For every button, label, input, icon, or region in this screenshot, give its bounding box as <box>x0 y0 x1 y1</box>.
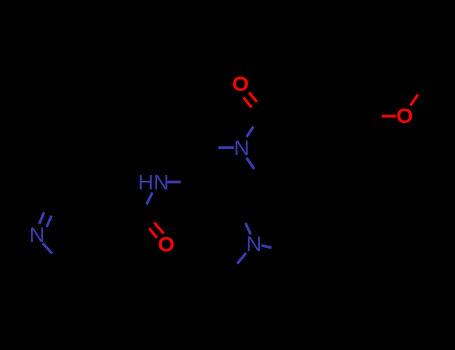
svg-text:N: N <box>246 232 262 256</box>
svg-text:O: O <box>396 104 413 128</box>
svg-text:HN: HN <box>138 171 169 195</box>
svg-text:O: O <box>232 72 249 96</box>
svg-text:N: N <box>29 223 45 247</box>
svg-text:O: O <box>158 232 175 256</box>
svg-text:N: N <box>234 136 250 160</box>
